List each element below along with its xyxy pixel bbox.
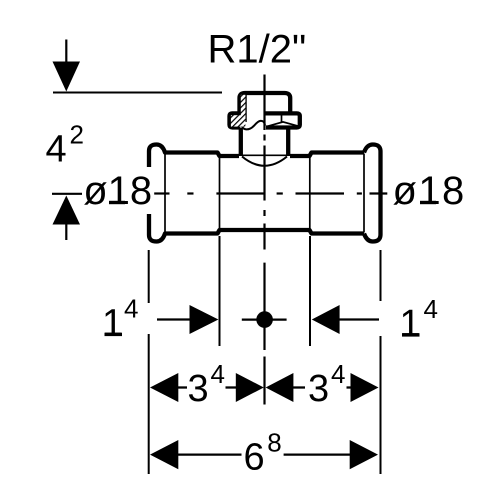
svg-text:R1/2": R1/2" [208, 28, 307, 72]
svg-text:1: 1 [102, 303, 123, 345]
svg-text:3: 3 [308, 368, 329, 410]
svg-text:6: 6 [244, 437, 265, 479]
svg-text:8: 8 [267, 428, 281, 458]
svg-text:4: 4 [424, 294, 438, 324]
svg-text:2: 2 [70, 120, 84, 150]
svg-text:4: 4 [211, 359, 225, 389]
svg-text:4: 4 [46, 129, 67, 171]
svg-text:4: 4 [331, 359, 345, 389]
svg-text:4: 4 [124, 294, 138, 324]
svg-text:ø18: ø18 [393, 169, 466, 213]
svg-text:ø18: ø18 [83, 169, 152, 213]
svg-text:3: 3 [188, 368, 209, 410]
svg-text:1: 1 [400, 303, 421, 345]
